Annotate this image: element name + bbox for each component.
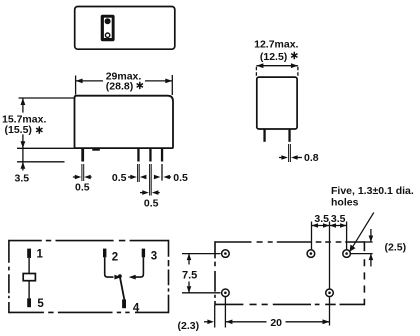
terminal 1	[27, 249, 31, 258]
svg-text:0.5: 0.5	[173, 172, 188, 184]
svg-text:4: 4	[133, 303, 140, 315]
svg-text:(2.5): (2.5)	[385, 242, 407, 254]
top view pivot dot	[105, 18, 111, 24]
dimension 0.5 pin 3	[140, 192, 160, 194]
dimension 0.8 pin	[279, 157, 302, 159]
terminal 3	[142, 249, 145, 258]
side view relay body	[257, 77, 297, 129]
dimension (2.5)	[351, 229, 373, 267]
svg-text:holes: holes	[331, 197, 359, 209]
asterisk after (15.5)	[36, 126, 42, 133]
top view relay outline	[75, 7, 175, 50]
mounting hole B	[307, 250, 315, 258]
blade pivot dot	[118, 274, 122, 278]
front view pin 4	[161, 148, 163, 161]
svg-text:12.7max.: 12.7max.	[254, 38, 298, 50]
front view pin 3	[149, 148, 151, 161]
svg-text:(15.5): (15.5)	[5, 124, 32, 136]
front view left pin	[81, 148, 84, 161]
dimension 0.5 pin 4	[155, 176, 171, 178]
svg-text:0.5: 0.5	[75, 182, 90, 194]
front view bottom stub	[92, 148, 100, 151]
terminal arrangement box	[9, 240, 169, 313]
svg-text:(12.5): (12.5)	[260, 51, 287, 63]
coil wire lower	[28, 281, 30, 299]
top view armature frame	[101, 15, 115, 41]
asterisk after (12.5)	[291, 52, 297, 59]
mounting hole D	[222, 289, 230, 297]
terminal 4	[122, 299, 126, 308]
svg-text:Five, 1.3±0.1 dia.: Five, 1.3±0.1 dia.	[331, 185, 414, 197]
mounting hole C	[343, 250, 351, 258]
coil wire upper	[28, 258, 30, 274]
svg-text:0.8: 0.8	[304, 152, 319, 164]
coil	[23, 274, 35, 281]
front view pin 2	[137, 148, 139, 161]
side view left pin	[263, 129, 265, 142]
svg-text:(28.8): (28.8)	[106, 80, 133, 92]
mounting hole E	[326, 289, 334, 297]
svg-text:3: 3	[151, 251, 157, 263]
common blade	[120, 277, 124, 300]
normally-closed contact wire	[135, 257, 144, 277]
svg-text:20: 20	[270, 317, 282, 329]
svg-text:0.5: 0.5	[112, 172, 127, 184]
normally-open contact wire	[105, 257, 114, 277]
svg-text:5: 5	[37, 298, 44, 310]
terminal 2	[103, 249, 106, 258]
top view pivot ring	[105, 33, 109, 37]
svg-text:2: 2	[112, 252, 118, 264]
side view right pin	[288, 129, 290, 142]
svg-text:7.5: 7.5	[182, 269, 197, 281]
svg-text:0.5: 0.5	[144, 197, 159, 209]
side view width dimension line	[256, 66, 298, 77]
pcb layout box	[215, 241, 364, 305]
dimension 7.5	[182, 254, 221, 293]
front view pin extension lines	[82, 164, 151, 196]
leader line to hole	[352, 213, 374, 249]
svg-text:(2.3): (2.3)	[178, 320, 200, 332]
dimension 15.7max height	[17, 98, 75, 171]
dimension 3.5 3.5 hole pitch	[312, 222, 347, 326]
dimension 29max width	[76, 75, 173, 95]
terminal 5	[27, 298, 31, 307]
dimension 0.5 left pin	[73, 176, 92, 178]
dimension 20 and (2.3)	[204, 297, 330, 328]
front view relay body	[75, 96, 174, 148]
side view pin extension lines	[289, 144, 291, 162]
svg-text:3.5: 3.5	[331, 213, 346, 225]
svg-text:1: 1	[37, 249, 44, 261]
mounting hole A	[222, 250, 230, 258]
svg-text:3.5: 3.5	[314, 213, 329, 225]
svg-text:3.5: 3.5	[15, 172, 30, 184]
asterisk after (28.8)	[137, 82, 143, 89]
